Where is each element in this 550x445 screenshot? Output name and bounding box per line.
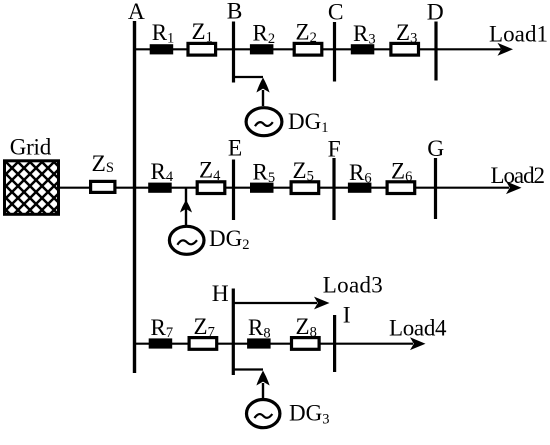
svg-text:D: D: [427, 0, 444, 26]
svg-text:Load1: Load1: [489, 22, 548, 47]
svg-text:G: G: [427, 136, 444, 162]
svg-text:Load4: Load4: [389, 315, 447, 340]
svg-text:C: C: [328, 0, 344, 26]
svg-text:A: A: [128, 0, 145, 25]
svg-text:Load2: Load2: [491, 163, 546, 188]
svg-text:H: H: [212, 281, 229, 307]
svg-text:E: E: [228, 136, 242, 162]
svg-text:Grid: Grid: [10, 135, 52, 160]
svg-text:Load3: Load3: [323, 273, 383, 298]
svg-text:B: B: [227, 0, 243, 24]
svg-text:I: I: [343, 302, 351, 328]
svg-text:F: F: [328, 137, 341, 163]
